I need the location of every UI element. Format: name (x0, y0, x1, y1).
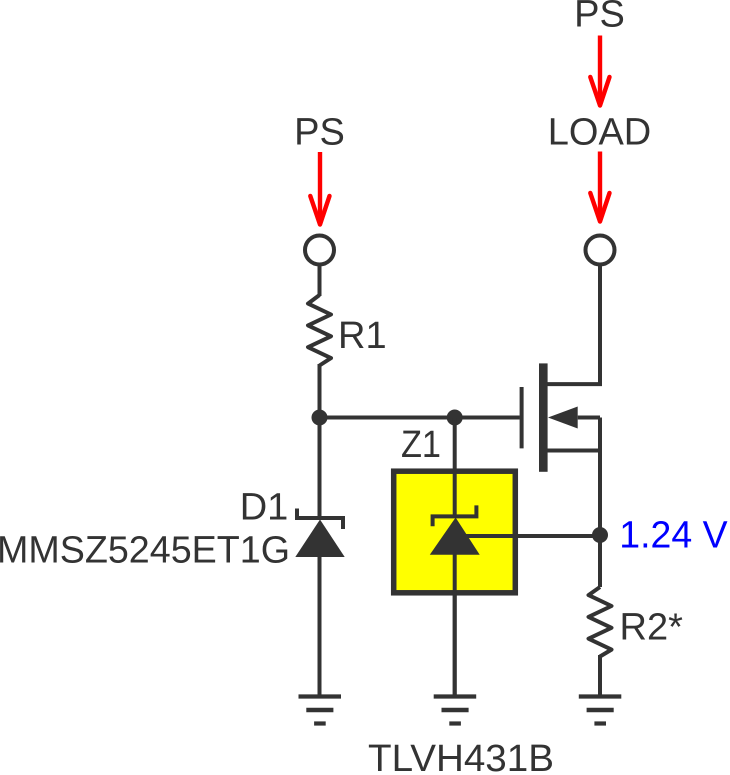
resistor R2 (589, 587, 612, 657)
wire Q1 body to source rail (578, 416, 600, 420)
terminal circle (left PS input) (305, 236, 334, 265)
shunt reference Z1 body (yellow box) (394, 471, 516, 593)
junction node A (R1/D1/gate) (312, 410, 328, 426)
svg-text:LOAD: LOAD (548, 112, 651, 154)
resistor R1 (308, 295, 331, 366)
wire Z1 reference to node 1.24V (455, 534, 600, 538)
wire node B through Z1 to ground (453, 418, 457, 697)
svg-text:R1: R1 (338, 315, 387, 357)
ground (D1) (299, 697, 342, 724)
wire source rail to node 1.24V (598, 418, 602, 588)
wire Z1 anode stub to ground (453, 554, 457, 697)
zener diode D1 (297, 509, 343, 530)
svg-text:Z1: Z1 (401, 424, 441, 466)
svg-text:D1: D1 (240, 487, 289, 529)
ground (Z1) (434, 697, 477, 724)
junction node 1.24V (592, 527, 608, 543)
junction node B (Z1 top) (447, 410, 463, 426)
wire R1 to node A (318, 364, 322, 418)
arrow PS-left (red input arrow) (310, 152, 329, 225)
transistor Q1 channel bar (539, 363, 548, 471)
transistor Q1 gate bar (520, 387, 524, 448)
wire Q1 source stub (548, 449, 601, 453)
svg-text:R2*: R2* (620, 607, 684, 649)
TLVH431 anode triangle inside Z1 (430, 518, 480, 555)
wire LOAD terminal to MOSFET drain (548, 264, 601, 384)
svg-text:1.24 V: 1.24 V (619, 515, 728, 557)
svg-text:PS: PS (294, 112, 345, 154)
svg-text:TLVH431B: TLVH431B (368, 738, 554, 775)
terminal circle (LOAD output) (586, 236, 615, 265)
TLVH431 cathode bar inside Z1 (433, 505, 477, 526)
ground (R2) (579, 697, 622, 724)
wire node A to D1 cathode (318, 418, 322, 520)
arrow PS-right (red input arrow) (590, 36, 609, 106)
wire Z1 internal cathode stub (453, 471, 457, 518)
transistor Q1 body arrow (548, 407, 578, 429)
wire R2 to ground (598, 655, 602, 697)
wire D1 anode to ground (318, 556, 322, 697)
wire terminal to R1 (318, 264, 322, 296)
arrow LOAD (red output arrow) (590, 152, 609, 222)
wire gate bus (node A to MOSFET gate) (320, 416, 520, 420)
svg-text:PS: PS (574, 0, 625, 36)
svg-text:MMSZ5245ET1G: MMSZ5245ET1G (0, 530, 290, 572)
